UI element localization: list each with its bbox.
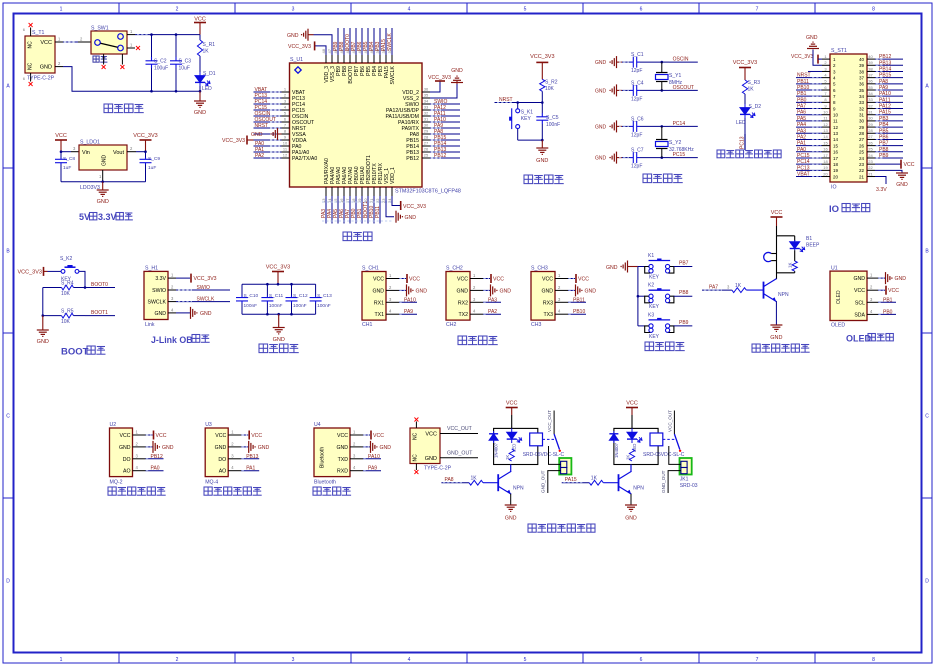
wire filter top rail: [242, 283, 316, 285]
svg-text:29: 29: [424, 129, 429, 134]
switch right lower pin: [127, 43, 135, 49]
power port VCC_3V3 top: [288, 41, 315, 50]
caption J-Link OB接口: [151, 335, 210, 346]
net labels mcu left: [255, 87, 276, 159]
net label VCC_OUT: [440, 426, 478, 434]
svg-text:GND: GND: [102, 155, 108, 167]
power port GND oled: [878, 272, 906, 284]
net labels io right: [875, 54, 903, 159]
svg-text:VCC: VCC: [251, 433, 262, 439]
svg-text:35: 35: [859, 88, 865, 93]
svg-text:35: 35: [868, 85, 873, 90]
svg-text:PA11: PA11: [879, 97, 891, 103]
switch bottom pin 1: [103, 54, 105, 65]
net label PB11: [568, 297, 586, 303]
svg-text:GND: GND: [251, 132, 263, 138]
svg-text:VCC: VCC: [373, 433, 384, 439]
svg-text:PA8: PA8: [879, 79, 888, 85]
caption 主芯片: [343, 232, 372, 241]
mcu left pins: [282, 87, 318, 163]
svg-text:20: 20: [833, 174, 839, 179]
wire alarm top rail: [777, 235, 795, 237]
svg-text:SWCLK: SWCLK: [387, 33, 393, 51]
svg-text:36: 36: [868, 79, 873, 84]
net label PA8: [441, 477, 469, 483]
net label PA0: [146, 466, 164, 472]
capacitor S_C10 100nF: [236, 284, 258, 314]
net label BOOT0: [85, 282, 115, 288]
svg-text:TX3: TX3: [543, 312, 553, 318]
wire VSS_3 to GND top: [314, 35, 333, 55]
svg-text:27: 27: [868, 134, 873, 139]
svg-text:TYPE-C-2P: TYPE-C-2P: [27, 76, 55, 82]
power port GND h1: [176, 307, 212, 319]
caption OLED显示屏: [846, 334, 893, 344]
svg-text:S_R5: S_R5: [61, 309, 74, 315]
svg-text:32: 32: [859, 106, 865, 111]
svg-text:S_K2: S_K2: [60, 256, 72, 262]
svg-text:S_T1: S_T1: [32, 30, 45, 36]
svg-text:GND: GND: [162, 445, 174, 451]
svg-text:U2: U2: [110, 422, 117, 428]
svg-text:24: 24: [868, 153, 873, 158]
svg-text:37: 37: [868, 72, 873, 77]
wire relay NO contact: [549, 446, 561, 464]
key S_K2: [60, 256, 79, 283]
resistor alarm: [788, 250, 798, 273]
svg-text:27: 27: [424, 141, 429, 146]
svg-text:VCC: VCC: [493, 277, 504, 283]
power port VCC U4: [363, 431, 384, 440]
power port VCC_3V3 boot: [18, 267, 62, 276]
svg-text:2: 2: [176, 7, 179, 13]
caption 烟雾检测模块: [108, 487, 166, 495]
resistor S_R2 10K: [540, 79, 558, 102]
svg-text:1N4007: 1N4007: [614, 442, 619, 458]
wire VDD_1 to VCC_3V3 bottom: [392, 196, 401, 206]
net label PA1: [241, 466, 259, 472]
power port VCC U2: [146, 431, 167, 440]
svg-text:VCC: VCC: [542, 277, 553, 283]
svg-text:S_R3: S_R3: [748, 80, 761, 86]
svg-text:6: 6: [640, 657, 643, 663]
svg-text:S_R4: S_R4: [61, 281, 74, 287]
net label PB12: [146, 454, 164, 460]
svg-text:VCC_3V3: VCC_3V3: [266, 265, 290, 271]
svg-text:PB7: PB7: [879, 141, 889, 147]
svg-text:VCC: VCC: [506, 401, 518, 407]
svg-text:1uF: 1uF: [63, 165, 71, 171]
svg-text:OLED: OLED: [836, 290, 842, 304]
svg-text:GND: GND: [215, 445, 227, 451]
svg-text:S_R2: S_R2: [545, 80, 558, 86]
capacitor S_C6 12pF with GND and PC14: [595, 116, 698, 138]
bluetooth U4 body: [314, 428, 363, 477]
svg-text:28: 28: [424, 135, 429, 140]
svg-text:PB8: PB8: [879, 147, 889, 153]
net label PA9: [399, 309, 417, 315]
resistor S_R4 10K: [61, 281, 85, 298]
junction: [277, 283, 280, 286]
wire GND_OUT: [548, 471, 561, 493]
svg-text:GND: GND: [625, 516, 637, 522]
power port VCC: [194, 17, 206, 35]
wire GND_OUT: [668, 471, 681, 493]
caption IO拓展口: [829, 204, 870, 216]
svg-text:GND: GND: [258, 445, 270, 451]
svg-text:PB12: PB12: [434, 153, 446, 159]
net label SWIO h1: [176, 285, 230, 291]
svg-text:RX2: RX2: [458, 300, 468, 306]
svg-text:NPN: NPN: [778, 292, 789, 298]
svg-text:VCC_OUT: VCC_OUT: [447, 426, 473, 432]
svg-text:STM32F103C8T6_LQFP48: STM32F103C8T6_LQFP48: [395, 189, 461, 195]
svg-text:12: 12: [283, 153, 288, 158]
svg-text:GND: GND: [416, 288, 428, 294]
svg-text:7: 7: [756, 7, 759, 13]
svg-text:28: 28: [859, 131, 865, 136]
power port VCC relay: [626, 401, 638, 429]
svg-text:S_C1: S_C1: [631, 52, 644, 58]
relay switch: [547, 410, 561, 452]
svg-text:25: 25: [868, 147, 873, 152]
mcu bottom pins: [321, 155, 396, 203]
svg-text:48: 48: [321, 48, 326, 53]
svg-text:VCC_3V3: VCC_3V3: [133, 133, 157, 139]
svg-text:GND: GND: [595, 88, 607, 94]
svg-text:VCC_3V3: VCC_3V3: [18, 269, 42, 275]
svg-text:S_R1: S_R1: [203, 42, 216, 48]
svg-text:GND: GND: [200, 311, 212, 317]
buzzer B1 BEEP: [764, 236, 820, 262]
svg-text:30: 30: [859, 119, 865, 124]
wire T1 GND down and along bottom: [55, 61, 200, 91]
svg-text:IO: IO: [831, 185, 836, 191]
power port GND alarm: [770, 325, 782, 341]
svg-text:6: 6: [640, 7, 643, 13]
svg-text:GND: GND: [500, 288, 512, 294]
svg-text:10: 10: [283, 141, 288, 146]
net label PB10: [568, 309, 586, 315]
wire relay loop: [494, 428, 538, 464]
svg-text:47: 47: [327, 48, 332, 53]
svg-text:21: 21: [868, 171, 873, 176]
svg-text:100nF: 100nF: [293, 303, 307, 309]
svg-text:K1: K1: [648, 253, 654, 259]
wire boot bus: [42, 288, 44, 316]
power port GND U3: [241, 441, 269, 453]
svg-text:8MHz: 8MHz: [669, 80, 683, 86]
svg-text:PB14: PB14: [879, 66, 891, 72]
no-connect switch right lower: [136, 46, 140, 50]
power port VCC relay: [506, 401, 518, 429]
junction: [266, 313, 269, 316]
svg-text:AO: AO: [123, 469, 131, 475]
svg-text:40: 40: [868, 54, 873, 59]
svg-text:KEY: KEY: [649, 304, 660, 310]
svg-text:U3: U3: [205, 422, 212, 428]
crystal S_Y2 32.768KHz: [656, 126, 695, 157]
svg-text:S_SW1: S_SW1: [91, 26, 109, 32]
header S_CH2 body: [446, 272, 483, 321]
svg-text:TXD: TXD: [338, 457, 349, 463]
caption 程序运行指示灯: [717, 150, 781, 158]
net label PA15: [562, 477, 590, 483]
svg-text:13: 13: [823, 128, 828, 133]
net label PB0 oled: [878, 309, 896, 315]
svg-text:1K: 1K: [748, 87, 755, 93]
svg-text:VCC_3V3: VCC_3V3: [194, 276, 217, 282]
svg-text:S_C6: S_C6: [631, 116, 644, 122]
svg-text:37: 37: [859, 75, 865, 80]
power port VCC oled: [878, 286, 899, 295]
capacitor S_C4 12pF with GND and OSCOUT: [595, 80, 698, 102]
svg-text:11: 11: [833, 119, 838, 124]
svg-text:12: 12: [833, 125, 839, 130]
svg-text:33: 33: [868, 97, 873, 102]
junction: [290, 313, 293, 316]
relay switch: [667, 410, 681, 452]
svg-text:VCC_3V3: VCC_3V3: [791, 54, 813, 60]
svg-text:1uF: 1uF: [148, 165, 156, 171]
net labels io left: [791, 54, 822, 177]
junction: [84, 286, 87, 289]
svg-text:31: 31: [868, 110, 873, 115]
capacitor S_C8 1uF: [55, 152, 75, 182]
wire alarm main column: [776, 226, 778, 279]
LED alarm: [790, 236, 805, 252]
svg-text:10K: 10K: [61, 319, 71, 325]
svg-text:S_D2: S_D2: [749, 104, 762, 110]
svg-text:12pF: 12pF: [631, 96, 642, 102]
svg-text:15: 15: [833, 143, 839, 148]
capacitor S_C7 12pF with GND and PC15: [595, 148, 698, 170]
wire relay loop: [614, 428, 658, 464]
svg-text:100nF: 100nF: [317, 303, 331, 309]
svg-text:S_D1: S_D1: [203, 71, 216, 77]
power port GND io top: [806, 35, 819, 49]
wire collector: [630, 465, 632, 472]
net label PA3: [483, 297, 501, 303]
svg-text:PB3: PB3: [879, 116, 889, 122]
svg-text:36: 36: [859, 82, 865, 87]
net label BOOT1: [85, 310, 115, 316]
svg-text:KEY: KEY: [649, 275, 660, 281]
svg-text:10: 10: [823, 110, 828, 115]
no-connect switch bottom pin 1: [102, 65, 106, 69]
svg-text:GND: GND: [505, 516, 517, 522]
no-connect bottom pin T1: [29, 82, 33, 86]
svg-text:GND_OUT: GND_OUT: [447, 451, 473, 457]
wire vcc to ldo vin: [61, 146, 79, 152]
wire emitter to gnd: [630, 494, 632, 505]
junction: [42, 314, 45, 317]
wire SW1 out to VCC rail: [127, 29, 200, 35]
power port GND keys: [606, 261, 638, 273]
svg-text:S_C3: S_C3: [179, 59, 192, 65]
svg-text:SWIO: SWIO: [152, 288, 166, 294]
svg-text:PB12: PB12: [406, 156, 419, 162]
svg-text:S_K1: S_K1: [521, 110, 533, 116]
capacitor S_C13 100nF: [310, 284, 332, 314]
mcu U1 STM32F103C8T6 body: [290, 63, 423, 187]
caption 滤波电路: [259, 344, 299, 353]
svg-text:VCC: VCC: [904, 162, 915, 168]
svg-text:PB15: PB15: [879, 73, 891, 79]
junction: [199, 90, 202, 93]
svg-text:PB9: PB9: [879, 153, 889, 159]
power port GND top: [287, 29, 314, 41]
svg-text:SRD-05VDC-SL-C: SRD-05VDC-SL-C: [643, 452, 685, 458]
svg-text:25: 25: [859, 150, 865, 155]
svg-text:19: 19: [823, 165, 828, 170]
svg-text:VCC: VCC: [55, 133, 67, 139]
junction: [266, 283, 269, 286]
svg-text:GND: GND: [37, 339, 49, 345]
LED S_D1: [195, 71, 216, 92]
svg-text:VDD_1: VDD_1: [390, 167, 396, 184]
sensor U2 MQ-2 body: [110, 428, 146, 477]
svg-text:PA10: PA10: [879, 91, 891, 97]
svg-text:NRST: NRST: [255, 123, 269, 129]
svg-text:S_C2: S_C2: [154, 59, 167, 65]
power port VCC ldo: [55, 133, 67, 152]
svg-text:GND: GND: [585, 288, 597, 294]
transistor NPN relay: [498, 471, 524, 494]
svg-text:GND: GND: [536, 158, 548, 164]
wire io pin2 to GND: [813, 50, 822, 66]
wire io pin22 to GND: [875, 170, 908, 188]
svg-text:36: 36: [424, 87, 429, 92]
caption 晶振电路: [643, 174, 683, 183]
resistor 1K base: [469, 476, 498, 486]
svg-text:S_C4: S_C4: [631, 80, 644, 86]
net label PA9 U4: [363, 466, 381, 472]
svg-text:S_Y2: S_Y2: [669, 140, 681, 146]
caption 电源电路: [104, 104, 144, 113]
key K3: [638, 312, 674, 340]
svg-text:10: 10: [833, 113, 839, 118]
svg-text:100nF: 100nF: [244, 303, 258, 309]
regulator S_LDO1 LDO3V3: [79, 145, 127, 170]
key S_K1 reset: [509, 103, 533, 141]
svg-text:PA15: PA15: [879, 110, 891, 116]
net label PB8: [674, 290, 693, 296]
svg-text:30: 30: [424, 123, 429, 128]
svg-text:VCC_3V3: VCC_3V3: [530, 54, 554, 60]
svg-text:D: D: [6, 579, 10, 585]
svg-text:DO: DO: [123, 457, 131, 463]
header S_CH3 body: [531, 272, 568, 321]
junction: [101, 180, 104, 183]
power port VCC U3: [241, 431, 262, 440]
svg-text:5: 5: [524, 7, 527, 13]
svg-text:S_CH2: S_CH2: [446, 266, 463, 272]
svg-text:TX1: TX1: [374, 312, 384, 318]
LED relay: [507, 428, 522, 452]
resistor 1K relay: [625, 449, 634, 461]
svg-text:Link: Link: [145, 322, 155, 328]
svg-text:14: 14: [833, 137, 839, 142]
svg-text:VCC: VCC: [409, 277, 420, 283]
svg-text:25: 25: [424, 153, 429, 158]
power port VCC_3V3 filter: [266, 265, 290, 285]
svg-text:17: 17: [833, 156, 839, 161]
capacitor S_C3 10uF: [170, 35, 191, 92]
resistor S_R3 1K: [742, 80, 760, 104]
svg-text:33: 33: [424, 105, 429, 110]
svg-text:S_U1: S_U1: [290, 57, 303, 63]
svg-text:CH1: CH1: [362, 322, 372, 328]
wire io pin21 to 3.3V: [875, 177, 887, 193]
junction: [290, 283, 293, 286]
svg-text:S_Y1: S_Y1: [669, 73, 681, 79]
svg-text:1: 1: [60, 657, 63, 663]
net label SWCLK h1: [176, 297, 230, 303]
svg-text:S_CH3: S_CH3: [531, 266, 548, 272]
svg-text:18: 18: [823, 159, 828, 164]
svg-text:PB12: PB12: [879, 54, 891, 60]
svg-text:PB9: PB9: [679, 320, 689, 326]
net labels mcu top: [333, 28, 393, 55]
power port VCC_3V3 reset: [530, 54, 554, 79]
junction: [175, 33, 178, 36]
svg-text:VCC: VCC: [854, 288, 865, 294]
svg-text:1K: 1K: [505, 455, 510, 460]
svg-text:GND: GND: [273, 337, 285, 343]
capacitor S_C2 100uF: [146, 35, 169, 92]
svg-text:U4: U4: [314, 422, 321, 428]
svg-text:S_ST1: S_ST1: [831, 48, 847, 54]
svg-text:Bluetooth: Bluetooth: [320, 447, 326, 468]
wire collector: [510, 465, 512, 472]
svg-text:GND: GND: [287, 33, 299, 39]
svg-text:OLED: OLED: [831, 323, 845, 329]
caption 继电器控制电路: [528, 524, 595, 532]
key K2: [638, 283, 674, 311]
power port VCC CH1: [399, 274, 420, 283]
wire VSS_2 to GND: [430, 84, 457, 98]
power port VCC_3V3 bottom: [401, 201, 426, 210]
caption 复位电路: [524, 175, 564, 184]
svg-text:100uF: 100uF: [154, 66, 168, 72]
wire io pin23 to VCC: [875, 160, 915, 169]
svg-text:GND: GND: [595, 60, 607, 66]
net label PA10 U4: [363, 454, 381, 460]
power port GND CH1: [399, 284, 427, 296]
svg-text:KEY: KEY: [649, 334, 660, 340]
wire alarm bottom rail: [777, 272, 795, 274]
svg-text:GND: GND: [595, 156, 607, 162]
wire boot0 left: [43, 287, 62, 289]
svg-text:VCC_OUT: VCC_OUT: [547, 410, 552, 432]
wire ldo vout: [127, 146, 146, 152]
svg-text:GND_OUT: GND_OUT: [541, 470, 546, 493]
svg-text:SWCLK: SWCLK: [390, 65, 396, 84]
svg-text:PB13: PB13: [879, 60, 891, 66]
svg-text:BEEP: BEEP: [806, 243, 820, 249]
svg-text:PA2/TX/A0: PA2/TX/A0: [292, 156, 317, 162]
svg-text:K2: K2: [648, 283, 654, 289]
resistor 1K base: [589, 476, 618, 486]
svg-text:24: 24: [859, 156, 865, 161]
svg-text:VCC_OUT: VCC_OUT: [667, 410, 672, 432]
svg-text:VCC_3V3: VCC_3V3: [403, 204, 426, 210]
svg-text:3: 3: [292, 657, 295, 663]
svg-text:SRD-03: SRD-03: [680, 483, 698, 489]
svg-text:10K: 10K: [545, 86, 555, 92]
svg-text:VCC: VCC: [888, 288, 899, 294]
